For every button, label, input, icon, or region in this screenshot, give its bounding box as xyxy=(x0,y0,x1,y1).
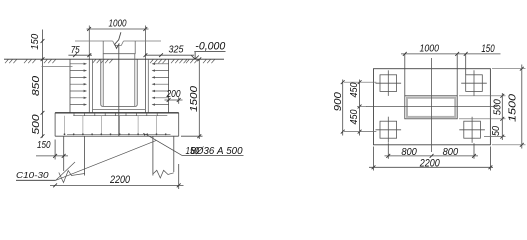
svg-text:150: 150 xyxy=(481,43,495,55)
pile upper-right (plan) xyxy=(461,70,487,96)
svg-text:800: 800 xyxy=(401,147,417,158)
column sides in socket xyxy=(103,54,135,107)
grout line under socket xyxy=(93,109,146,111)
svg-text:-0,000: -0,000 xyxy=(195,40,225,52)
dim 1500 (section right) xyxy=(181,57,203,139)
svg-text:900: 900 xyxy=(333,92,344,111)
column axis line (section) xyxy=(118,44,120,137)
dim 2200 (section) xyxy=(50,164,184,189)
pile lower-left (plan) xyxy=(376,117,402,143)
socket box (section) xyxy=(103,41,135,54)
slab bottom rebar xyxy=(64,116,171,136)
axis horizontal (plan) xyxy=(366,106,498,108)
column break line (section) xyxy=(115,32,121,48)
label C10-30 (piles) xyxy=(16,141,156,181)
svg-text:1500: 1500 xyxy=(507,94,518,122)
dim 1000 (plan top) xyxy=(401,44,501,96)
svg-text:850: 850 xyxy=(31,76,42,96)
axis vertical (plan) xyxy=(431,58,433,152)
svg-text:1000: 1000 xyxy=(420,44,440,55)
extension/wall line left xyxy=(88,26,90,113)
ground line xyxy=(4,58,224,60)
svg-text:75: 75 xyxy=(71,45,80,56)
svg-text:1500: 1500 xyxy=(189,86,200,112)
pile 1 break line xyxy=(59,171,85,183)
svg-text:800: 800 xyxy=(443,147,459,158)
level mark -0,000 xyxy=(191,40,225,59)
dim 1500 (plan right) xyxy=(492,65,526,149)
svg-text:50: 50 xyxy=(491,126,502,136)
svg-text:150: 150 xyxy=(30,33,41,49)
dim 150 (slab edge to pile) xyxy=(36,140,68,160)
pedestal below ground outline xyxy=(70,59,169,113)
pedestal outline (plan) xyxy=(405,96,457,119)
dim 2200 (plan bottom) xyxy=(369,147,493,171)
slab top rebar xyxy=(73,113,167,115)
svg-text:450: 450 xyxy=(349,109,360,124)
pedestal top edge (section) xyxy=(75,41,161,45)
left dim chain (150/850/500) xyxy=(30,30,44,139)
svg-text:200: 200 xyxy=(166,89,181,100)
svg-text:8Ø36 А 500: 8Ø36 А 500 xyxy=(191,146,243,157)
right chain dims 500/50 (plan) xyxy=(459,93,506,140)
dim 1000 (column width, section) xyxy=(87,18,149,31)
dim 325 (section top-right) xyxy=(143,45,194,58)
svg-text:1000: 1000 xyxy=(109,18,127,29)
svg-text:2200: 2200 xyxy=(109,174,130,186)
svg-text:500: 500 xyxy=(493,99,504,115)
svg-text:500: 500 xyxy=(31,114,42,134)
pile cap slab outline xyxy=(55,113,179,136)
pile 1 (section) xyxy=(64,136,85,175)
svg-text:325: 325 xyxy=(169,45,184,56)
left chain dims 450/450 (plan) xyxy=(344,80,376,136)
dim 75 (section top-left) xyxy=(68,45,92,57)
dim 150 (plan top) xyxy=(464,43,495,75)
wall hatch rungs xyxy=(70,63,169,106)
pile 2 break line xyxy=(153,170,174,178)
extension line xyxy=(42,66,73,68)
glass wall lines xyxy=(93,59,149,113)
pile 2 (section) xyxy=(153,136,174,175)
extension/wall line right xyxy=(144,26,146,113)
pile cap slab outline (plan) xyxy=(374,69,491,145)
svg-text:С10-30: С10-30 xyxy=(16,170,49,180)
svg-text:450: 450 xyxy=(349,82,360,97)
svg-text:150: 150 xyxy=(37,140,51,151)
dim 200 (slab ledge) xyxy=(165,89,183,104)
ground hatching xyxy=(5,60,215,64)
glass cavity (socket) xyxy=(101,59,137,106)
svg-text:2200: 2200 xyxy=(419,157,440,169)
pedestal outline gray (plan) xyxy=(407,98,455,117)
label 16d36 A500 (slab rebar) xyxy=(143,133,244,157)
left chain dim 900 (plan) xyxy=(333,80,345,136)
pile lower-right (plan) xyxy=(459,117,485,143)
pile upper-left (plan) xyxy=(376,70,402,96)
dim 800-800 (plan bottom) xyxy=(385,143,479,159)
